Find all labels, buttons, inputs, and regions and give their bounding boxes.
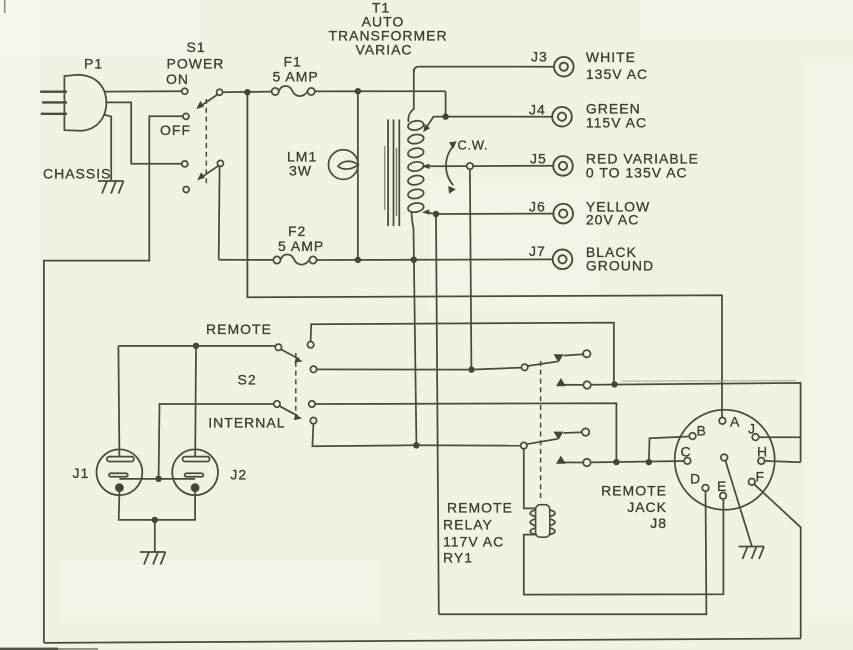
svg-text:B: B <box>697 423 707 439</box>
svg-text:P1: P1 <box>84 56 103 72</box>
svg-text:WHITE: WHITE <box>586 49 636 65</box>
svg-text:REMOTE: REMOTE <box>206 321 272 337</box>
svg-text:3W: 3W <box>289 163 312 179</box>
svg-text:5 AMP: 5 AMP <box>273 69 319 85</box>
svg-text:S1: S1 <box>187 39 206 55</box>
svg-text:20V AC: 20V AC <box>586 212 639 228</box>
svg-text:INTERNAL: INTERNAL <box>208 415 285 431</box>
svg-text:ON: ON <box>166 71 189 87</box>
svg-text:J3: J3 <box>531 49 548 65</box>
svg-text:REMOTE: REMOTE <box>447 500 513 516</box>
svg-text:117V AC: 117V AC <box>443 534 504 550</box>
svg-text:RELAY: RELAY <box>443 517 493 533</box>
svg-text:A: A <box>730 414 740 430</box>
svg-text:C.W.: C.W. <box>458 138 489 153</box>
svg-text:J5: J5 <box>530 151 547 167</box>
svg-text:OFF: OFF <box>160 122 191 138</box>
svg-text:J7: J7 <box>529 243 546 259</box>
svg-text:F: F <box>756 469 766 485</box>
svg-text:VARIAC: VARIAC <box>355 42 412 58</box>
svg-text:J6: J6 <box>529 199 546 215</box>
svg-text:115V AC: 115V AC <box>586 115 647 131</box>
svg-text:H: H <box>757 444 768 460</box>
svg-text:POWER: POWER <box>167 56 225 72</box>
svg-text:S2: S2 <box>238 372 257 388</box>
svg-text:J4: J4 <box>529 102 546 118</box>
svg-text:D: D <box>690 471 701 487</box>
svg-text:5 AMP: 5 AMP <box>278 238 324 254</box>
svg-text:J2: J2 <box>230 467 247 483</box>
svg-text:GROUND: GROUND <box>586 258 654 274</box>
svg-text:F1: F1 <box>284 54 302 70</box>
svg-text:E: E <box>717 478 727 494</box>
svg-text:C: C <box>681 444 692 460</box>
svg-text:RY1: RY1 <box>443 550 473 566</box>
svg-text:135V AC: 135V AC <box>586 66 648 82</box>
svg-text:0 TO 135V AC: 0 TO 135V AC <box>586 165 688 181</box>
svg-text:J: J <box>748 421 756 437</box>
svg-text:F2: F2 <box>288 223 306 239</box>
svg-text:J1: J1 <box>73 465 90 481</box>
svg-text:JACK: JACK <box>627 499 667 515</box>
svg-text:J8: J8 <box>650 515 667 531</box>
svg-text:REMOTE: REMOTE <box>601 483 667 499</box>
svg-text:CHASSIS: CHASSIS <box>43 166 111 182</box>
